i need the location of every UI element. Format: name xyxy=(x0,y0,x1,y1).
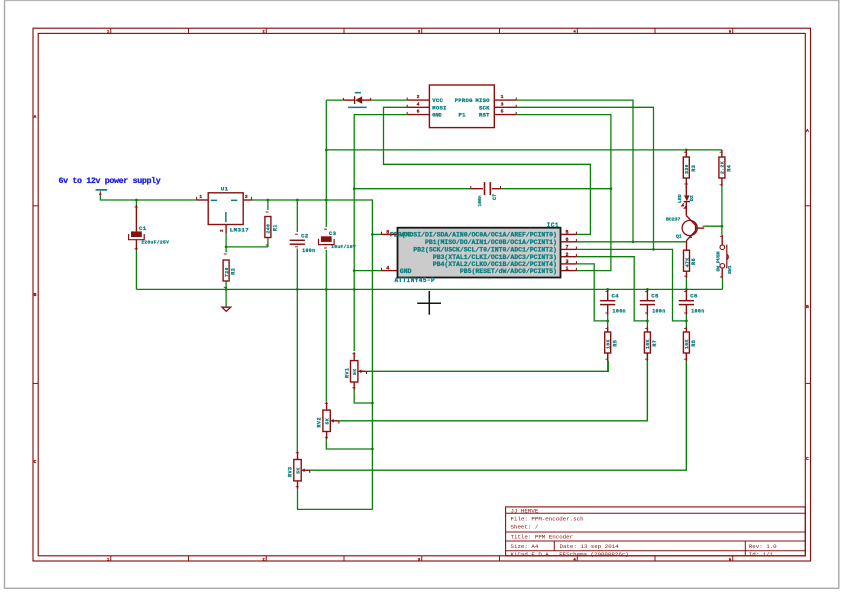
capacitor C1 body xyxy=(129,225,170,245)
LED D2 xyxy=(677,178,695,208)
svg-text:R2: R2 xyxy=(231,268,237,275)
capacitor C4 xyxy=(600,293,626,315)
svg-text:220uF/25V: 220uF/25V xyxy=(141,239,169,245)
wire C6 bottom node xyxy=(685,315,687,328)
IC1 pin 6 xyxy=(561,237,577,243)
junction R3 top xyxy=(685,149,688,152)
wire C1 top lead xyxy=(135,200,137,205)
resistor R4 xyxy=(719,157,733,178)
svg-text:100n: 100n xyxy=(613,308,626,314)
svg-text:8: 8 xyxy=(386,229,389,235)
resistor R6 xyxy=(684,250,698,271)
wire C2 bottom to bus to RV3 top xyxy=(296,249,298,452)
svg-text:100n: 100n xyxy=(477,195,483,206)
svg-text:1: 1 xyxy=(566,266,569,272)
wire P1 RST right xyxy=(516,115,611,271)
wire IC1 pin2 row xyxy=(576,257,647,321)
svg-text:PB5(RESET/dW/ADC0/PCINT5): PB5(RESET/dW/ADC0/PCINT5) xyxy=(460,268,557,275)
wire IC1 pin7 row xyxy=(576,249,686,321)
svg-text:5K: 5K xyxy=(352,369,358,375)
svg-text:RV1: RV1 xyxy=(344,368,350,378)
P1 pin 3 xyxy=(494,101,516,107)
ground symbol xyxy=(222,307,231,311)
frame zone ticks left/right xyxy=(33,206,811,384)
svg-text:GND: GND xyxy=(400,268,412,275)
frame zone numbers bottom xyxy=(107,558,732,562)
P1 pin 4 xyxy=(407,101,429,107)
svg-text:C: C xyxy=(806,456,809,462)
wire 5V top branch to R3 R4 xyxy=(326,149,722,151)
svg-text:ATTINY45-P: ATTINY45-P xyxy=(395,277,436,284)
svg-text:10uF/16V: 10uF/16V xyxy=(331,244,356,250)
svg-text:4: 4 xyxy=(417,101,420,107)
svg-text:SW_PUSH: SW_PUSH xyxy=(715,251,721,271)
svg-text:LM317: LM317 xyxy=(230,227,250,234)
svg-text:330: 330 xyxy=(684,164,690,174)
P1 pin 6 xyxy=(407,109,429,115)
svg-text:5: 5 xyxy=(566,230,569,236)
wire VCC branch to IC1 pin8 xyxy=(372,233,381,235)
wire Q1 base to node xyxy=(704,225,722,227)
wire P1 SCK right xyxy=(516,107,653,249)
svg-text:5K: 5K xyxy=(296,467,302,473)
svg-text:Size: A4: Size: A4 xyxy=(511,543,539,550)
wire P1 GND left xyxy=(354,115,407,351)
capacitor C5 top lead xyxy=(646,289,648,300)
wire C1 red lead xyxy=(135,205,137,231)
svg-text:2: 2 xyxy=(566,252,569,258)
wire C4 bottom node xyxy=(607,315,609,328)
svg-text:100n: 100n xyxy=(302,248,315,254)
wire R1 top xyxy=(267,200,269,210)
wire U1 ADJ down xyxy=(225,233,227,252)
wire D1 row left xyxy=(326,99,343,101)
wire R6 bottom to bus xyxy=(685,278,687,290)
svg-text:6: 6 xyxy=(417,109,420,115)
svg-text:IC1: IC1 xyxy=(547,222,559,229)
svg-text:PB0(MOSI/DI/SDA/AIN0/OC0A/OC1A: PB0(MOSI/DI/SDA/AIN0/OC0A/OC1A/AREF/PCIN… xyxy=(390,232,557,239)
svg-text:PB1(MISO/DO/AIN1/OC0B/OC1A/PCI: PB1(MISO/DO/AIN1/OC0B/OC1A/PCINT1) xyxy=(425,239,557,246)
wire R1 bottom xyxy=(267,238,269,247)
wire C2 top lead xyxy=(296,200,298,232)
junction D1/C3 on rail xyxy=(325,199,328,202)
svg-text:R5: R5 xyxy=(612,340,618,347)
wire GND branch to IC1 pin4 xyxy=(354,270,381,272)
IC1 pin 4 xyxy=(382,266,398,272)
capacitor C8 xyxy=(679,293,705,315)
svg-text:D2: D2 xyxy=(689,195,695,201)
svg-text:P1: P1 xyxy=(459,112,467,119)
junction ADC2 node xyxy=(606,320,609,323)
junction C2 top xyxy=(296,199,299,202)
svg-text:Sheet: /: Sheet: / xyxy=(511,523,539,530)
capacitor C8 top lead xyxy=(685,289,687,300)
svg-text:Rev: 1.0: Rev: 1.0 xyxy=(749,543,777,550)
svg-text:R6: R6 xyxy=(691,258,697,265)
svg-text:100n: 100n xyxy=(652,308,665,314)
svg-text:R7: R7 xyxy=(652,340,658,347)
svg-text:KiCad E.D.A. EESchema (200908: KiCad E.D.A. EESchema (20090826c) xyxy=(511,551,629,558)
wire C1 bottom to bus xyxy=(135,250,137,289)
resistor R7 xyxy=(644,332,658,353)
wire IC1 pin6 row xyxy=(576,241,685,243)
svg-text:U1: U1 xyxy=(221,186,229,193)
wire R7 top lead xyxy=(646,327,648,332)
svg-text:1: 1 xyxy=(199,194,202,200)
svg-text:C4: C4 xyxy=(612,293,620,300)
resistor R5 xyxy=(605,332,619,353)
junction GND bus xyxy=(353,288,356,291)
svg-text:4: 4 xyxy=(386,266,389,272)
IC1 pin 5 xyxy=(561,230,577,236)
wire power drop xyxy=(100,195,196,200)
junction ADC1 node xyxy=(685,320,688,323)
svg-text:MISO: MISO xyxy=(475,97,490,104)
wire R3 top lead xyxy=(685,150,687,157)
potentiometer RV2 xyxy=(317,402,339,440)
svg-text:VCC: VCC xyxy=(432,97,443,104)
junction C2 bus xyxy=(296,288,299,291)
junction C1 top xyxy=(135,199,138,202)
P1 pin 2 xyxy=(407,94,429,100)
svg-text:5: 5 xyxy=(501,109,504,115)
svg-text:PPROG: PPROG xyxy=(455,97,473,104)
title block outline xyxy=(506,507,806,556)
IC1 pin 2 xyxy=(561,252,577,258)
svg-text:RST: RST xyxy=(479,112,490,119)
svg-text:RV2: RV2 xyxy=(317,417,323,427)
svg-text:R3: R3 xyxy=(691,165,697,172)
wire R6 bottom lead xyxy=(686,271,688,278)
wire RV3 wiper to R8 xyxy=(309,361,687,470)
resistor R3 xyxy=(683,157,697,178)
svg-text:47K: 47K xyxy=(684,257,690,267)
junction R2 bus xyxy=(225,288,228,291)
junction ADJ/R1 xyxy=(225,246,228,249)
svg-text:C3: C3 xyxy=(329,230,337,237)
capacitor C5 bottom lead xyxy=(646,305,648,315)
svg-text:B: B xyxy=(806,304,809,310)
svg-text:R1: R1 xyxy=(273,224,279,231)
IC1 pin 3 xyxy=(561,259,577,265)
wire D1 to P1 pin2 xyxy=(372,99,407,101)
svg-text:Q1: Q1 xyxy=(676,233,682,239)
svg-text:LED: LED xyxy=(677,194,683,203)
svg-text:PB3(XTAL1/CLKI/OC1B/ADC3/PCINT: PB3(XTAL1/CLKI/OC1B/ADC3/PCINT3) xyxy=(433,254,557,261)
frame zone letters left xyxy=(34,114,37,465)
svg-text:5K: 5K xyxy=(325,418,331,424)
wire R8 bottom xyxy=(685,353,687,470)
svg-text:B: B xyxy=(34,292,37,298)
wire R5 top lead xyxy=(607,327,609,332)
svg-text:7: 7 xyxy=(566,245,569,251)
svg-text:File: PPM-encoder.sch: File: PPM-encoder.sch xyxy=(511,516,584,523)
junction C3 bus xyxy=(325,288,328,291)
svg-text:SW1: SW1 xyxy=(727,265,733,274)
svg-text:JJ HERVE: JJ HERVE xyxy=(511,507,539,514)
wire RV2 wiper to R7 xyxy=(338,361,648,421)
capacitor C8 bottom lead xyxy=(685,305,687,315)
wire RV3 bottom xyxy=(298,489,373,510)
svg-text:Id: 1/1: Id: 1/1 xyxy=(749,551,774,558)
wire R4 top lead xyxy=(721,150,723,157)
svg-text:C5: C5 xyxy=(651,293,659,300)
IC1 pin 1 xyxy=(561,266,577,272)
svg-text:C1: C1 xyxy=(139,225,147,232)
wire RV1 bottom xyxy=(354,389,372,404)
diode D1 xyxy=(343,92,371,108)
junction Q1 base node xyxy=(721,225,724,228)
svg-text:6v to 12v power supply: 6v to 12v power supply xyxy=(59,176,161,186)
frame zone ticks top/bottom xyxy=(111,28,733,561)
transistor Q1 BC237 xyxy=(666,202,704,241)
svg-text:2.2K: 2.2K xyxy=(720,161,726,174)
capacitor C2 xyxy=(290,232,316,254)
wire R4 to base node xyxy=(721,187,723,235)
capacitor C3 xyxy=(319,230,357,250)
svg-text:R8: R8 xyxy=(691,340,697,347)
svg-text:100n: 100n xyxy=(691,308,704,314)
wire IC1 pin3 row xyxy=(576,264,607,321)
wire R7 bottom xyxy=(646,353,648,421)
junction VCC branch xyxy=(371,233,374,236)
wire RV2 bottom xyxy=(326,439,372,450)
junction C4 bus xyxy=(606,288,609,291)
svg-text:PB2(SCK/USCK/SCL/T0/INT0/ADC1/: PB2(SCK/USCK/SCL/T0/INT0/ADC1/PCINT2) xyxy=(413,247,557,254)
frame zone letters right xyxy=(806,128,809,462)
svg-text:3: 3 xyxy=(566,259,569,265)
svg-text:10K: 10K xyxy=(684,339,690,349)
junction C7 to RST xyxy=(610,187,613,190)
P1 pin 1 xyxy=(494,94,516,100)
wire P1 MISO right xyxy=(516,100,633,242)
svg-text:2: 2 xyxy=(220,229,225,232)
svg-text:C2: C2 xyxy=(301,232,309,239)
junction 5V branch to R3 R4 xyxy=(325,149,328,152)
title block row lines xyxy=(506,513,806,551)
IC1 pin 8 xyxy=(382,229,398,235)
wire C7 row right xyxy=(501,188,611,190)
wire ADJ to R1 bottom xyxy=(226,246,268,248)
svg-text:RV3: RV3 xyxy=(288,467,294,477)
P1 pin 5 xyxy=(494,109,516,115)
svg-text:A: A xyxy=(806,128,809,134)
svg-text:6: 6 xyxy=(566,237,569,243)
svg-text:3: 3 xyxy=(245,194,248,200)
svg-text:10K: 10K xyxy=(645,339,651,349)
svg-text:BC237: BC237 xyxy=(666,216,681,222)
wire R5 bottom xyxy=(607,353,609,372)
svg-text:R4: R4 xyxy=(727,165,733,172)
wire R5 bottom lead red xyxy=(607,353,609,361)
junction MISO pin6 xyxy=(632,240,635,243)
capacitor C5 xyxy=(640,293,666,315)
junction R1 top xyxy=(267,199,270,202)
ground bus xyxy=(136,288,722,290)
resistor R2 xyxy=(223,260,237,281)
junction GND/C7 branch xyxy=(353,187,356,190)
U1 pin 1 xyxy=(197,194,209,200)
U1 pin 2 xyxy=(220,225,226,234)
svg-text:240: 240 xyxy=(266,224,272,234)
wire IC1 pin5 to MOSI xyxy=(575,233,577,235)
cursor crosshair xyxy=(417,291,441,315)
IC1 inner pin labels xyxy=(390,232,557,275)
svg-text:VCC: VCC xyxy=(400,232,412,239)
wire x326 vertical 5V/D1 xyxy=(325,100,327,227)
svg-text:A: A xyxy=(34,114,37,120)
U1 pin 3 xyxy=(243,194,251,200)
R1 lead ticks xyxy=(266,212,269,245)
potentiometer RV3 xyxy=(288,451,310,489)
svg-text:3: 3 xyxy=(501,101,504,107)
junction C5 bus xyxy=(646,288,649,291)
svg-text:C: C xyxy=(34,459,37,465)
P1 pin names xyxy=(432,97,490,119)
svg-text:C7: C7 xyxy=(492,194,498,200)
C3 lead ticks xyxy=(324,229,327,248)
junction SCK pin7 xyxy=(652,248,655,251)
svg-text:SCK: SCK xyxy=(479,104,490,111)
title block column dividers xyxy=(554,541,745,556)
wire P1 MOSI left xyxy=(384,107,591,234)
wire C5 bottom node xyxy=(646,315,648,328)
potentiometer RV1 xyxy=(344,352,366,390)
wire C3 bottom to bus to RV2 top xyxy=(325,250,327,402)
connector P1 PPROG xyxy=(429,85,494,128)
junction R6/C6 bus xyxy=(685,288,688,291)
svg-text:Date: 13 sep 2014: Date: 13 sep 2014 xyxy=(560,543,620,550)
wire bus to ground symbol xyxy=(225,289,227,306)
svg-text:MOSI: MOSI xyxy=(432,104,446,111)
resistor R1 xyxy=(265,217,279,238)
resistor R8 xyxy=(683,332,697,353)
title block texts xyxy=(511,507,778,558)
wire R8 top lead xyxy=(685,327,687,332)
svg-text:C8: C8 xyxy=(690,293,698,300)
wire R8 bottom lead red xyxy=(685,353,687,361)
junction GND pin4 branch xyxy=(353,269,356,272)
capacitor C4 top lead xyxy=(607,289,609,300)
switch SW1 xyxy=(715,235,733,279)
power input symbol xyxy=(96,189,108,195)
wire R4 bottom lead xyxy=(721,178,723,187)
R2 lead ticks xyxy=(224,254,227,287)
svg-text:Title: PPM Encoder: Title: PPM Encoder xyxy=(511,534,574,541)
wire 5V rail right of U1 xyxy=(251,200,372,509)
svg-text:720: 720 xyxy=(224,267,230,277)
wire C1 red bottom lead xyxy=(135,240,137,251)
C2 lead ticks xyxy=(295,234,298,247)
junction ADC3 node xyxy=(646,320,649,323)
junction RV1 bottom on 5V xyxy=(371,402,374,405)
frame zone numbers top xyxy=(107,31,732,35)
junction RV2 bottom on 5V xyxy=(371,448,374,451)
IC1 pin 7 xyxy=(561,245,577,251)
svg-text:1: 1 xyxy=(501,94,504,100)
wire Q1 emitter to R6 xyxy=(686,241,688,250)
regulator U1 LM317 xyxy=(208,186,249,234)
IC IC1 ATTINY45-P body xyxy=(395,222,561,284)
wire C7 row left xyxy=(354,188,471,190)
svg-text:2: 2 xyxy=(417,94,420,100)
wire R7 bottom lead red xyxy=(646,353,648,361)
wire RV1 wiper to R5 xyxy=(366,361,608,372)
svg-text:GND: GND xyxy=(432,113,441,119)
capacitor C4 bottom lead xyxy=(607,305,609,315)
svg-text:10K: 10K xyxy=(606,339,612,349)
capacitor C7 xyxy=(471,182,501,206)
wire R2 bottom to bus xyxy=(225,281,227,290)
wire SW1 bottom to bus xyxy=(722,278,724,289)
